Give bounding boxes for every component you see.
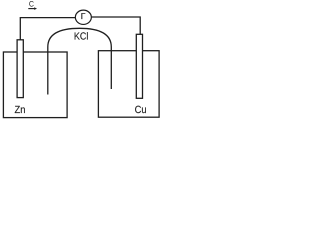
- svg-text:KCl: KCl: [74, 31, 88, 42]
- svg-text:Cu: Cu: [135, 105, 147, 116]
- svg-text:C: C: [29, 0, 34, 9]
- svg-text:Г: Г: [81, 11, 86, 21]
- svg-text:Zn: Zn: [15, 105, 26, 116]
